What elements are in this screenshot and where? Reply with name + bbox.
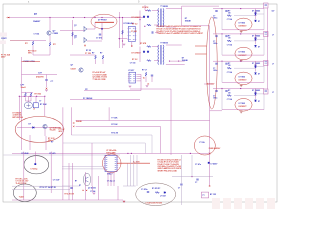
- transistor Q6: [83, 173, 90, 186]
- x mark: [46, 88, 48, 90]
- svg-text:474/275V: 474/275V: [36, 76, 44, 79]
- svg-text:C? 470u: C? 470u: [141, 188, 148, 191]
- svg-text:J?: J?: [272, 64, 274, 66]
- svg-text:F? 2A: F? 2A: [200, 141, 206, 144]
- highlight circle E7: [194, 136, 215, 155]
- ground row1: [240, 31, 243, 32]
- svg-text:D? 4148: D? 4148: [22, 152, 29, 155]
- svg-text:C?: C?: [178, 188, 180, 190]
- svg-text:330: 330: [228, 38, 231, 40]
- wire: [191, 155, 193, 177]
- diode D2: [33, 127, 35, 129]
- wire: [140, 74, 142, 90]
- wire: [29, 135, 31, 150]
- wire: [17, 127, 60, 129]
- svg-text:R? 4.7K 1W: R? 4.7K 1W: [65, 192, 75, 195]
- svg-text:D? UF4007: D? UF4007: [132, 16, 141, 19]
- wire: [180, 155, 182, 184]
- svg-text:CON?: CON?: [1, 38, 7, 40]
- svg-text:U? 7805: U? 7805: [239, 76, 246, 78]
- capacitor Crow3b: [225, 63, 227, 64]
- transistor Q5: [79, 68, 83, 72]
- watermark bars: [212, 198, 220, 209]
- svg-text:C?: C?: [213, 16, 215, 18]
- diode Drow3a: [255, 66, 257, 68]
- node: [255, 12, 257, 14]
- svg-text:1000u: 1000u: [213, 98, 217, 100]
- bridge rectifier BD1: [24, 102, 32, 109]
- wire mid2 row3: [257, 66, 264, 68]
- x mark: [84, 45, 86, 47]
- node: [208, 162, 210, 164]
- op-amp U2: [129, 72, 136, 83]
- wire main vertical right: [209, 26, 211, 186]
- wire bus C: [76, 120, 210, 122]
- diode D12: [164, 192, 166, 194]
- svg-text:R? 10K: R? 10K: [111, 124, 118, 126]
- x mark rail start: [8, 17, 9, 18]
- svg-text:330: 330: [228, 92, 231, 94]
- capacitor C12: [151, 75, 153, 76]
- resistor R4: [30, 93, 32, 97]
- wire row2 right edge: [263, 34, 265, 55]
- transistor Q2: [43, 124, 47, 128]
- wire: [221, 9, 223, 30]
- capacitor C4: [99, 34, 101, 35]
- svg-text:LM7805CT: LM7805CT: [239, 106, 247, 108]
- highlight ellipse E1: [91, 14, 117, 29]
- svg-text:R? 2.2: R? 2.2: [132, 24, 137, 26]
- wire: [166, 44, 182, 46]
- resistor Rrow4: [227, 95, 231, 97]
- wire: [60, 30, 84, 32]
- red junction marks: [73, 122, 74, 123]
- svg-text:R? 470: R? 470: [50, 152, 56, 155]
- wire: [137, 73, 141, 75]
- svg-text:C?: C?: [213, 41, 215, 43]
- wire: [44, 129, 46, 136]
- ground row2: [240, 60, 243, 61]
- wire: [70, 54, 96, 56]
- wire left drop2: [70, 107, 72, 135]
- wire bus D: [76, 125, 161, 127]
- svg-text:R? 47K: R? 47K: [142, 6, 149, 9]
- highlight ellipse E2: [15, 116, 63, 142]
- svg-text:R?: R?: [228, 63, 230, 65]
- diode D7: [143, 51, 145, 53]
- wire bus F: [63, 142, 145, 144]
- node: [145, 10, 146, 11]
- svg-text:250V: 250V: [1, 57, 6, 59]
- capacitor C5: [152, 31, 153, 33]
- node L junction: [49, 17, 50, 18]
- node: [169, 61, 170, 62]
- ground: [123, 201, 126, 202]
- resistor R5: [72, 32, 74, 36]
- wire: [255, 89, 257, 94]
- svg-text:D?: D?: [258, 46, 260, 48]
- svg-text:R?: R?: [228, 36, 230, 38]
- wire bus E: [71, 134, 152, 136]
- wire: [118, 38, 127, 40]
- svg-text:C?: C?: [213, 68, 215, 70]
- svg-text:1000u: 1000u: [213, 43, 217, 45]
- wire: [221, 34, 223, 55]
- wire left drop1: [62, 107, 64, 200]
- transformer T2: [158, 45, 164, 65]
- resistor R10: [147, 10, 151, 12]
- diode D5: [143, 16, 145, 18]
- diode D6: [147, 16, 149, 18]
- wire: [221, 61, 223, 82]
- transistor Q3: [84, 26, 87, 32]
- node: [119, 38, 120, 39]
- x mark: [209, 153, 211, 155]
- wire: [172, 176, 213, 178]
- diode Drow4b: [255, 100, 257, 102]
- highlight circle row1: [235, 18, 252, 31]
- wire mid2 row4: [257, 93, 264, 95]
- ground: [123, 44, 126, 45]
- connector J2: [264, 32, 269, 37]
- resistor R2: [32, 41, 34, 45]
- capacitor Crow2a: [215, 36, 217, 37]
- wire red out: [117, 162, 150, 164]
- connector J4: [264, 89, 269, 94]
- wire: [87, 28, 95, 30]
- svg-text:R? 22: R? 22: [86, 50, 91, 52]
- svg-text:TL431: TL431: [19, 196, 24, 199]
- wire: [91, 143, 93, 186]
- wire connector bus: [266, 8, 268, 89]
- wire: [22, 61, 41, 63]
- wire red live segment: [7, 17, 11, 19]
- svg-text:D? UF4007: D? UF4007: [132, 52, 141, 55]
- svg-text:C5027: C5027: [71, 69, 76, 71]
- svg-text:LM7805CT: LM7805CT: [239, 80, 247, 82]
- wire bus B: [204, 83, 213, 85]
- wire: [87, 40, 102, 42]
- resistor Rrow1: [227, 15, 231, 17]
- svg-text:C?: C?: [39, 101, 41, 103]
- x mark: [143, 77, 144, 78]
- capacitor C11: [196, 179, 198, 180]
- wire: [107, 172, 109, 187]
- svg-text:T? 10K: T? 10K: [111, 118, 118, 120]
- wire row3 bottom: [222, 81, 264, 83]
- svg-text:D?: D?: [258, 101, 260, 103]
- node: [190, 153, 191, 154]
- wire row2 bottom: [222, 54, 264, 56]
- highlight ellipse E6: [136, 183, 176, 206]
- capacitor C14: [70, 188, 72, 189]
- svg-text:NTC: NTC: [28, 53, 33, 55]
- wire mid row1: [234, 15, 256, 17]
- svg-text:C?: C?: [213, 95, 215, 97]
- x mark: [86, 190, 87, 191]
- node row1: [240, 8, 241, 9]
- node: [191, 176, 192, 177]
- capacitor Crow4a: [215, 90, 217, 91]
- svg-text:J?: J?: [272, 35, 274, 37]
- node: [139, 19, 140, 20]
- wire: [119, 12, 121, 48]
- diode Drow3b: [255, 73, 257, 75]
- wire: [166, 8, 182, 10]
- wire: [122, 18, 124, 48]
- resistor R8: [102, 55, 104, 59]
- node: [127, 153, 128, 154]
- wire bridge rail: [19, 95, 45, 97]
- svg-text:T? EE19: T? EE19: [160, 43, 167, 45]
- capacitor C2: [45, 80, 47, 81]
- wire: [72, 20, 74, 45]
- node: [122, 40, 123, 41]
- wire loop: [182, 5, 219, 7]
- svg-text:C3852: C3852: [53, 33, 59, 35]
- resistor R13: [147, 60, 151, 62]
- capacitor C7: [147, 192, 149, 193]
- wire mid row3: [234, 67, 256, 69]
- svg-text:L? 8uH: L? 8uH: [160, 196, 166, 198]
- wire bus A: [130, 88, 171, 90]
- x mark: [83, 190, 84, 191]
- svg-text:R? 2.2: R? 2.2: [132, 59, 137, 61]
- wire: [25, 97, 27, 101]
- svg-text:J?: J?: [272, 92, 274, 94]
- wire mid2 row2: [257, 38, 264, 40]
- connector J1: [264, 3, 269, 8]
- highlight ellipse E4: [13, 184, 36, 202]
- svg-text:R?: R?: [85, 89, 87, 91]
- wire bottom: [12, 199, 123, 201]
- wire: [34, 152, 36, 164]
- wire: [145, 77, 147, 82]
- relay K1: [33, 103, 38, 108]
- resistor Rrow2: [227, 40, 231, 42]
- wire: [84, 172, 86, 200]
- wire mid2 row1: [257, 13, 264, 15]
- wire: [12, 185, 70, 187]
- x mark: [34, 108, 35, 109]
- capacitor C8: [180, 184, 182, 185]
- connector J3: [264, 61, 269, 66]
- highlight ellipse E5: [102, 154, 121, 173]
- node row4: [240, 88, 241, 89]
- diode Drow1a: [255, 14, 257, 16]
- resistor R19: [145, 72, 147, 76]
- ground: [146, 86, 149, 87]
- diode Drow1b: [255, 20, 257, 22]
- output row 3 top wire: [213, 60, 264, 62]
- svg-text:C? 681: C? 681: [131, 31, 137, 33]
- wire: [22, 92, 34, 94]
- wire top rail: [8, 17, 145, 19]
- wire: [95, 60, 97, 64]
- svg-text:B+ 300V: B+ 300V: [133, 161, 140, 163]
- svg-text:R? 47K: R? 47K: [140, 42, 147, 45]
- diode Drow2a: [255, 39, 257, 41]
- highlight tall ellipse E8: [206, 17, 217, 109]
- wire mid row2: [234, 40, 256, 42]
- x mark: [131, 45, 132, 46]
- node dots: [19, 96, 20, 97]
- wire: [202, 25, 210, 27]
- resistor R12: [147, 46, 151, 48]
- svg-text:1N4148: 1N4148: [76, 120, 82, 123]
- wire: [50, 152, 52, 194]
- ground: [93, 193, 96, 194]
- svg-text:1N4148: 1N4148: [182, 59, 188, 62]
- wire mid row4: [234, 95, 256, 97]
- svg-text:1N4148: 1N4148: [185, 19, 191, 22]
- wire: [62, 185, 80, 187]
- wire: [131, 42, 133, 47]
- resistor R18: [155, 192, 159, 194]
- svg-text:U? 7805: U? 7805: [239, 52, 246, 54]
- wire feed red2: [195, 53, 207, 55]
- x mark: [148, 83, 149, 84]
- wire row1 right edge: [263, 9, 265, 30]
- wire: [123, 185, 136, 187]
- ground row3: [240, 85, 243, 86]
- wire row4 right edge: [263, 89, 265, 110]
- capacitor Crow4b: [225, 90, 227, 91]
- wire: [49, 35, 51, 42]
- svg-text:330: 330: [228, 12, 231, 14]
- wire: [22, 74, 58, 76]
- svg-text:T?: T?: [202, 195, 204, 197]
- op-amp U3: [105, 155, 117, 171]
- svg-text:330: 330: [228, 65, 231, 67]
- highlight circle row2: [235, 47, 252, 60]
- node: [255, 92, 257, 94]
- resistor R11: [147, 24, 151, 26]
- wire inside E1: [95, 21, 114, 23]
- svg-text:R? 1M2: R? 1M2: [35, 94, 41, 96]
- resistor R6: [122, 30, 124, 34]
- wire: [170, 60, 185, 62]
- op-amp U1: [129, 26, 136, 41]
- svg-text:LM7805CT: LM7805CT: [239, 26, 247, 28]
- wire row4 bottom: [222, 109, 264, 111]
- resistor R7: [95, 55, 97, 59]
- wire: [70, 99, 140, 101]
- transformer T1: [158, 9, 164, 28]
- svg-text:D? 1N4148: D? 1N4148: [83, 97, 92, 100]
- node row2: [240, 33, 241, 34]
- node: [255, 37, 257, 39]
- wire: [18, 96, 20, 120]
- svg-text:R? 150K: R? 150K: [40, 104, 48, 106]
- x mark: [123, 201, 124, 202]
- resistor R1: [49, 42, 51, 46]
- svg-text:U? 7805: U? 7805: [239, 103, 246, 105]
- wire: [126, 164, 128, 186]
- highlight circle row4: [235, 99, 252, 112]
- capacitor Crow1a: [215, 11, 217, 12]
- border frame: [3, 4, 277, 202]
- svg-text:D? FR107: D? FR107: [98, 20, 107, 22]
- node: [101, 28, 103, 30]
- transistor Q1: [47, 31, 51, 35]
- svg-text:Q? A1015: Q? A1015: [88, 187, 96, 190]
- svg-text:R?: R?: [75, 181, 77, 183]
- ground: [45, 90, 48, 91]
- wire row4 link: [210, 110, 222, 112]
- resistor R3: [25, 93, 27, 97]
- output row 4 top wire: [213, 88, 264, 90]
- svg-text:C? 104: C? 104: [34, 33, 40, 36]
- output row 1 top wire: [213, 8, 264, 10]
- svg-text:R?: R?: [228, 90, 230, 92]
- wire: [46, 75, 48, 80]
- wire: [49, 18, 51, 31]
- svg-text:C? 103: C? 103: [130, 62, 136, 64]
- wire: [32, 46, 34, 55]
- wire row1 bottom: [222, 29, 264, 31]
- svg-text:R?: R?: [100, 53, 102, 55]
- svg-text:R? 470 D?: R? 470 D?: [152, 187, 160, 190]
- svg-text:BR? KBP206: BR? KBP206: [13, 117, 23, 119]
- svg-text:C? 472: C? 472: [96, 37, 102, 40]
- transistor Q4: [84, 37, 87, 43]
- diode Drow4a: [255, 93, 257, 95]
- svg-text:C? 47u: C? 47u: [195, 163, 201, 166]
- output row 2 top wire: [213, 33, 264, 35]
- watermark left smudge: [0, 33, 7, 37]
- resistor Rrow3: [227, 67, 231, 69]
- svg-text:R? 4.7K: R? 4.7K: [111, 132, 118, 135]
- node: [255, 64, 257, 66]
- wire feedback pair: [62, 166, 104, 168]
- wire feed red: [195, 45, 207, 47]
- wire: [101, 22, 103, 40]
- svg-text:T?=EE25 L?=8uH C?=682/2KV R?=2: T?=EE25 L?=8uH C?=682/2KV R?=2M2 C?=222 …: [157, 33, 203, 35]
- x mark: [209, 185, 210, 186]
- capacitor Crow2b: [225, 36, 227, 37]
- svg-text:T? EE25: T? EE25: [160, 6, 167, 8]
- svg-text:R?: R?: [75, 36, 77, 38]
- svg-text:TO-220: TO-220: [50, 130, 56, 132]
- diode D8: [147, 51, 149, 53]
- wire: [255, 34, 257, 39]
- wire: [84, 90, 141, 92]
- wire: [139, 11, 141, 46]
- wire: [23, 152, 25, 201]
- svg-text:D?: D?: [258, 21, 260, 23]
- node: [34, 163, 36, 165]
- svg-text:Z? 18V: Z? 18V: [85, 53, 92, 55]
- transformer T4 box: [201, 192, 208, 198]
- svg-text:D?: D?: [258, 74, 260, 76]
- highlight circle row3: [235, 72, 252, 85]
- svg-text:R?: R?: [51, 142, 53, 144]
- svg-text:R? C?: R? C?: [142, 70, 147, 72]
- wire: [68, 163, 70, 200]
- wire rail y154.9: [4, 154, 121, 156]
- wire: [221, 89, 223, 110]
- svg-text:R?: R?: [228, 10, 230, 12]
- svg-text:1000u: 1000u: [213, 18, 217, 20]
- highlight ellipse E3: [24, 156, 49, 174]
- wire: [255, 61, 257, 66]
- svg-text:B? 12V: B? 12V: [210, 194, 217, 196]
- wire mains feed: [10, 40, 30, 42]
- svg-text:U? 817: U? 817: [128, 70, 134, 72]
- svg-text:C? 400V: C? 400V: [210, 163, 218, 166]
- svg-text:1N4007: 1N4007: [33, 20, 41, 23]
